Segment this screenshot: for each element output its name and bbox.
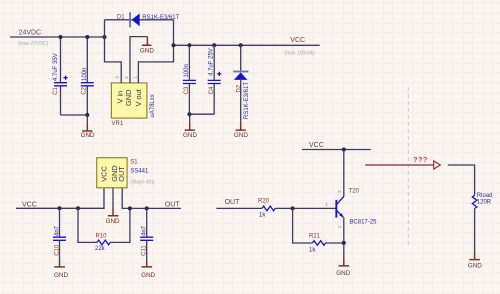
- svg-text:T20: T20: [349, 189, 360, 195]
- wire C10 stub: [59, 208, 61, 260]
- svg-text:V out: V out: [134, 89, 143, 106]
- wire emitter: [343, 217, 345, 258]
- svg-text:1: 1: [325, 201, 328, 206]
- junction R10 left: [76, 206, 80, 210]
- svg-text:100n: 100n: [82, 68, 88, 81]
- svg-text:2: 2: [124, 76, 129, 79]
- svg-text:C2: C2: [81, 86, 87, 94]
- svg-text:RS1K-E3/61T: RS1K-E3/61T: [142, 15, 179, 21]
- ground below D2: [234, 123, 248, 139]
- ground VR1 pin2: [140, 37, 154, 55]
- svg-text:GND: GND: [140, 47, 154, 54]
- wire C2 stub: [86, 37, 88, 115]
- junction C1 rail: [59, 35, 63, 39]
- diode D2: [233, 71, 250, 119]
- svg-text:RS1K-E3/61T: RS1K-E3/61T: [244, 82, 250, 119]
- svg-text:GND: GND: [124, 90, 133, 106]
- wire D1 top: [105, 19, 174, 21]
- svg-text:24VDC: 24VDC: [19, 30, 42, 37]
- svg-text:4.7uF 25V: 4.7uF 25V: [209, 48, 215, 76]
- sensor S1: [97, 158, 155, 188]
- capacitor C4: [208, 48, 222, 94]
- svg-text:R20: R20: [258, 199, 270, 205]
- svg-text:GND: GND: [336, 270, 350, 277]
- wire S1 gnd pin: [112, 188, 114, 207]
- junction C2 rail: [85, 35, 89, 39]
- svg-text:GND: GND: [183, 132, 197, 139]
- diode D1: [117, 12, 180, 27]
- wire OUT rail from S1: [122, 188, 181, 209]
- wire C1-C2 bottom join: [61, 114, 88, 116]
- svg-text:VCC: VCC: [290, 37, 305, 44]
- svg-text:1: 1: [132, 76, 137, 79]
- wire OUT to R20: [216, 207, 262, 209]
- junction emitter R21: [342, 241, 346, 245]
- svg-text:(Magn 4th): (Magn 4th): [130, 179, 155, 185]
- svg-text:(max 27VDC): (max 27VDC): [18, 41, 49, 47]
- wire D2 bottom stub: [240, 80, 242, 123]
- wire VCC rail transistor: [302, 149, 371, 151]
- junction C11 rail: [145, 206, 149, 210]
- svg-text:1k: 1k: [309, 248, 316, 254]
- svg-text:120R: 120R: [477, 200, 492, 206]
- wire D1 right riser: [173, 20, 175, 46]
- boundary dashed line: [407, 87, 409, 247]
- junction base R21: [291, 206, 295, 210]
- svg-text:VR1: VR1: [112, 121, 124, 127]
- wire R20 to base: [275, 207, 335, 209]
- wire VR1 pin2: [130, 37, 147, 83]
- resistor R20: [258, 199, 275, 219]
- wire port to Rload: [448, 165, 475, 195]
- junction C2 bottom: [85, 113, 89, 117]
- svg-text:3: 3: [337, 190, 342, 193]
- wire C1 stub: [60, 37, 62, 115]
- junction R10 right: [128, 206, 132, 210]
- ground below C3 C4: [183, 114, 197, 139]
- junction D2 rail: [239, 43, 243, 47]
- svg-text:GND: GND: [468, 263, 482, 270]
- svg-text:GND: GND: [54, 272, 68, 279]
- ground below C11: [141, 261, 155, 280]
- ground S1: [106, 207, 120, 225]
- svg-text:C3: C3: [184, 86, 190, 94]
- svg-text:4.7uF 35V: 4.7uF 35V: [53, 53, 59, 81]
- wire D2 top stub: [240, 45, 242, 70]
- wire C4 stub: [213, 45, 215, 114]
- wire VCC output rail: [174, 44, 320, 46]
- junction C3 bottom: [187, 112, 191, 116]
- svg-text:GND: GND: [141, 272, 155, 279]
- wire input rail 24VDC: [10, 36, 105, 38]
- svg-text:C1: C1: [53, 86, 59, 94]
- capacitor C11: [140, 225, 153, 255]
- svg-text:R21: R21: [309, 234, 321, 240]
- ground Rload: [468, 253, 482, 270]
- wire VR1 pin3: [105, 37, 122, 83]
- svg-text:C4: C4: [209, 86, 215, 94]
- wire Rload bottom: [474, 209, 476, 253]
- svg-text:C11: C11: [142, 245, 148, 256]
- svg-text:VCC: VCC: [309, 142, 324, 149]
- svg-text:4n7: 4n7: [142, 225, 148, 236]
- ground below C1 C2: [81, 115, 95, 139]
- svg-text:22k: 22k: [95, 246, 106, 252]
- svg-text:D1: D1: [117, 15, 125, 21]
- capacitor C1: [53, 53, 68, 94]
- wire D1 left riser: [104, 20, 106, 37]
- junction collector VCC: [342, 148, 346, 152]
- power port VCC top: [285, 37, 315, 57]
- resistor Rload: [472, 193, 492, 208]
- svg-text:3: 3: [115, 76, 120, 79]
- ground T20 emitter: [336, 258, 350, 277]
- junction rail corner: [103, 35, 107, 39]
- junction C4 rail: [212, 43, 216, 47]
- capacitor C2: [81, 68, 94, 95]
- svg-text:GND: GND: [81, 132, 95, 139]
- svg-text:2: 2: [337, 225, 342, 228]
- svg-text:R10: R10: [96, 234, 108, 240]
- svg-text:D2: D2: [236, 84, 242, 92]
- svg-text:1k: 1k: [259, 212, 266, 218]
- svg-text:S1: S1: [130, 160, 138, 166]
- svg-text:BC817-25: BC817-25: [349, 220, 377, 226]
- svg-text:???: ???: [413, 157, 428, 164]
- svg-text:OUT: OUT: [165, 201, 181, 208]
- junction C10 rail: [58, 206, 62, 210]
- svg-text:4n7: 4n7: [54, 225, 60, 236]
- regulator VR1: [111, 76, 156, 127]
- junction C3 rail: [187, 43, 191, 47]
- wire C3 stub: [188, 45, 190, 114]
- power port 24VDC: [18, 30, 49, 48]
- svg-text:SS441: SS441: [130, 169, 149, 175]
- svg-text:OUT: OUT: [117, 166, 126, 182]
- resistor R21: [293, 208, 344, 253]
- svg-text:VCC: VCC: [22, 201, 37, 208]
- svg-text:OUT: OUT: [225, 199, 241, 206]
- capacitor C3: [183, 64, 196, 94]
- wire C3-C4 bottom join: [189, 113, 214, 115]
- svg-text:GND: GND: [106, 218, 120, 225]
- ground below C10: [54, 261, 68, 280]
- port ???: [365, 157, 440, 169]
- svg-text:C10: C10: [55, 244, 61, 256]
- resistor R10: [78, 208, 130, 252]
- capacitor C10: [53, 225, 66, 255]
- wire collector: [343, 150, 345, 197]
- svg-text:(max 100mA): (max 100mA): [285, 50, 315, 56]
- wire C11 stub: [146, 208, 148, 260]
- svg-text:GND: GND: [234, 132, 248, 139]
- wire VR1 pin1: [138, 45, 173, 83]
- transistor T20: [325, 189, 377, 228]
- svg-text:Rload: Rload: [477, 193, 493, 199]
- junction output rail left: [172, 43, 176, 47]
- svg-text:V in: V in: [115, 91, 124, 104]
- svg-text:100n: 100n: [184, 64, 190, 77]
- svg-text:uA78Lxx: uA78Lxx: [150, 94, 156, 117]
- svg-text:VCC: VCC: [99, 166, 108, 182]
- wire VCC lower rail to S1: [16, 188, 104, 209]
